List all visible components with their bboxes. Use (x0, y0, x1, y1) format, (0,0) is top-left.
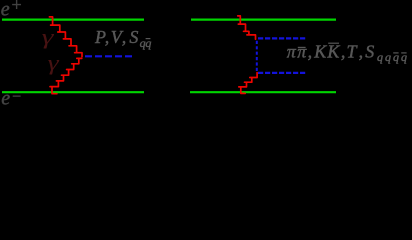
upper meson line (dashed blue) (258, 37, 307, 39)
label pi pibar, K Kbar, T, S_qqqbarqbar (287, 41, 407, 64)
quark exchange line (vertical dashed blue) (256, 41, 258, 73)
photon (from e+ line, right diagram) (238, 16, 256, 39)
label e+ (1, 0, 23, 21)
electron line e- (left diagram) (2, 91, 144, 93)
svg-text:q: q (377, 50, 383, 64)
svg-text:e: e (1, 0, 10, 21)
svg-text:−: − (11, 89, 22, 106)
svg-text:q: q (401, 50, 407, 64)
svg-text:S: S (365, 41, 374, 61)
label e- (1, 88, 22, 110)
positron line e+ (left diagram) (2, 19, 144, 21)
svg-text:,: , (341, 41, 346, 61)
svg-text:,: , (122, 27, 127, 47)
positron line e+ (right diagram) (191, 19, 336, 21)
meson line (left diagram, dashed blue) (85, 55, 134, 57)
svg-text:K: K (313, 41, 327, 61)
label P, V, S_qqbar (94, 27, 151, 50)
photon gamma1 (from e+ line, left diagram) (49, 17, 82, 57)
svg-text:q: q (385, 50, 391, 64)
svg-text:K: K (326, 41, 340, 61)
svg-text:γ: γ (48, 50, 61, 75)
svg-text:S: S (129, 27, 138, 47)
photon (from e- line, right diagram) (239, 73, 257, 94)
svg-text:γ: γ (42, 24, 56, 49)
electron line e- (right diagram) (190, 91, 336, 93)
lower meson line (dashed blue) (258, 72, 307, 74)
svg-text:,: , (105, 27, 110, 47)
svg-text:e: e (1, 88, 10, 110)
svg-text:,: , (359, 41, 364, 61)
svg-text:π: π (287, 41, 297, 61)
svg-text:q: q (393, 50, 399, 64)
svg-text:+: + (10, 0, 22, 15)
svg-text:,: , (308, 41, 313, 61)
photon gamma2 (from e- line, left diagram) (50, 58, 82, 93)
svg-text:π: π (297, 41, 307, 61)
